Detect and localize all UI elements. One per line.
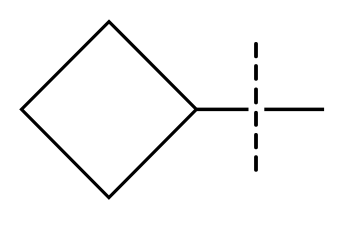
bond segment right of attachment line [264,108,324,112]
bond segment left of attachment line [196,108,248,112]
cyclobutane ring (diamond) [22,22,197,198]
attachment-point dashed line [254,44,258,170]
